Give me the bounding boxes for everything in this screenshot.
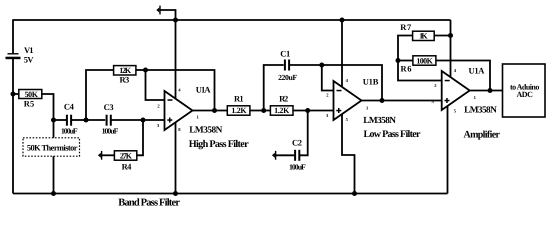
wire R4 left to terminal — [102, 154, 115, 156]
wire U1A pin8 — [175, 115, 177, 194]
svg-text:100uF: 100uF — [61, 127, 78, 136]
op-amp U1B — [326, 76, 421, 140]
wire U1B output to amplifier — [362, 100, 448, 102]
wire amplifier output to ADC — [470, 90, 502, 92]
wire left rail upper — [12, 19, 14, 53]
resistor R6 — [401, 56, 436, 74]
svg-text:LM358N: LM358N — [464, 106, 497, 116]
svg-text:1.2K: 1.2K — [231, 106, 247, 115]
wire R7 right — [434, 35, 450, 37]
svg-text:R6: R6 — [401, 64, 412, 74]
svg-text:27K: 27K — [120, 151, 133, 160]
svg-text:R3: R3 — [120, 74, 130, 84]
svg-text:High Pass Filter: High Pass Filter — [189, 139, 249, 150]
wire C4 to node B — [72, 119, 86, 121]
svg-text:C3: C3 — [104, 102, 114, 112]
svg-text:100uF: 100uF — [102, 127, 119, 136]
node amplifier output — [488, 88, 493, 93]
svg-text:U1A: U1A — [469, 66, 486, 76]
wire node B up to R3 — [86, 70, 114, 120]
svg-text:U1B: U1B — [363, 76, 379, 86]
wire amplifier pin4 — [450, 20, 452, 80]
svg-text:C2: C2 — [292, 138, 302, 148]
wire R7 left to inverting node — [398, 36, 448, 81]
node U1A pin8 ground — [173, 191, 178, 196]
wire C1 right — [290, 64, 322, 66]
wire U1A output — [193, 110, 228, 112]
node U1A plus/R4 — [141, 118, 146, 123]
node U1B pin4 junction — [340, 18, 345, 23]
capacitor C3 — [102, 102, 119, 136]
wire U1A pin4 — [175, 20, 177, 105]
wire bottom rail — [13, 193, 448, 195]
svg-text:V1: V1 — [24, 45, 34, 55]
svg-text:Amplifier: Amplifier — [464, 130, 501, 141]
wire plus node down to R4 — [137, 120, 143, 155]
svg-text:ADC: ADC — [517, 90, 534, 99]
wire R1 to R2 — [250, 110, 271, 112]
wire node A to C4 — [54, 119, 67, 121]
node A R5/C4/thermistor — [51, 118, 56, 123]
svg-text:U1A: U1A — [196, 85, 212, 95]
ground terminal R4 — [98, 151, 102, 160]
svg-text:Band Pass Filter: Band Pass Filter — [118, 197, 180, 208]
ground terminal C2 — [272, 151, 276, 160]
wire C2 left to terminal — [276, 154, 294, 156]
resistor R4 — [114, 151, 136, 172]
wire R5 right — [42, 94, 54, 120]
resistor R1 — [227, 94, 250, 116]
wire U1B pin4 — [341, 20, 343, 95]
wire thermistor top — [53, 120, 55, 138]
svg-text:50K Thermistor: 50K Thermistor — [27, 143, 78, 152]
wire C3 to U1A non-inverting input — [111, 119, 170, 121]
svg-text:R2: R2 — [279, 94, 288, 104]
svg-text:LM358N: LM358N — [363, 116, 396, 126]
wire C1 node to U1B inverting input — [322, 65, 340, 91]
wire R6 left — [398, 60, 413, 62]
node B C4/C3/R3 — [84, 118, 89, 123]
wire feedback R3 to output — [146, 70, 215, 111]
resistor R7 — [400, 22, 434, 40]
wire node B to C3 — [86, 119, 105, 121]
thermistor dashed box — [23, 138, 80, 156]
op-amp U1A amplifier — [432, 66, 501, 141]
wire U1B pin5 jog — [342, 110, 355, 194]
svg-text:1.2K: 1.2K — [274, 106, 290, 115]
wire C2 top branch — [300, 111, 308, 156]
node U1A output — [212, 108, 217, 113]
node R2/C2/U1B plus — [305, 108, 310, 113]
node thermistor ground — [51, 191, 56, 196]
svg-text:100K: 100K — [416, 57, 433, 66]
node R5 left junction — [11, 92, 16, 97]
resistor R3 — [114, 66, 136, 85]
node top terminal junction — [173, 18, 178, 23]
svg-text:R1: R1 — [234, 94, 244, 104]
wire top rail — [13, 19, 451, 21]
wire node C up to C1 — [264, 65, 284, 111]
svg-text:Low Pass Filter: Low Pass Filter — [364, 129, 422, 140]
node U1B output — [380, 98, 385, 103]
node C1 right — [319, 63, 324, 68]
node U1B pin5 ground — [352, 191, 357, 196]
resistor R2 — [270, 94, 293, 116]
wire R2 to U1B non-inverting input — [293, 110, 340, 112]
node R7/R6 left — [396, 58, 401, 63]
wire C1 feedback to U1B output — [322, 65, 382, 101]
wire R5 left — [13, 93, 19, 95]
svg-text:R4: R4 — [122, 162, 132, 172]
svg-text:1K: 1K — [419, 32, 428, 41]
wire R3 right — [136, 69, 146, 71]
svg-text:LM358N: LM358N — [189, 125, 222, 135]
wire amplifier pin5 — [447, 101, 449, 194]
capacitor C4 — [61, 102, 78, 136]
node R3 right — [143, 68, 148, 73]
wire terminal stub top — [160, 10, 176, 20]
wire R6 feedback to output — [436, 61, 490, 91]
svg-text:R7: R7 — [400, 22, 412, 32]
op-amp U1A — [157, 85, 249, 151]
svg-text:220uF: 220uF — [278, 73, 297, 82]
wire to U1A inverting input — [146, 70, 171, 100]
ground terminal top — [156, 6, 160, 15]
battery V1 — [6, 45, 35, 65]
svg-text:C4: C4 — [64, 102, 75, 112]
svg-text:5V: 5V — [24, 54, 35, 64]
node R7 right — [448, 33, 453, 38]
capacitor C1 — [278, 48, 297, 82]
resistor R5 — [19, 90, 42, 109]
node R1/R2/C1 — [261, 108, 266, 113]
to Arduino ADC box — [503, 64, 546, 117]
capacitor C2 — [289, 138, 306, 172]
svg-text:C1: C1 — [280, 48, 290, 58]
wire left rail lower — [12, 59, 14, 194]
wire thermistor bottom — [53, 156, 55, 194]
svg-text:100uF: 100uF — [289, 162, 306, 171]
svg-text:R5: R5 — [24, 98, 34, 108]
